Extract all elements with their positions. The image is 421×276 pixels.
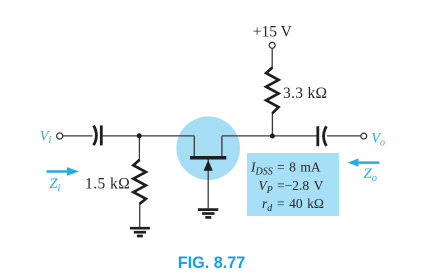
svg-text:Zi: Zi: [49, 176, 60, 194]
svg-text:+15 V: +15 V: [253, 24, 293, 41]
svg-text:3.3 kΩ: 3.3 kΩ: [283, 85, 327, 102]
svg-text:Vo: Vo: [371, 131, 385, 149]
svg-text:Zo: Zo: [363, 166, 377, 184]
svg-text:Vi: Vi: [40, 128, 52, 146]
svg-text:FIG. 8.77: FIG. 8.77: [178, 254, 245, 272]
svg-text:1.5 kΩ: 1.5 kΩ: [85, 175, 130, 192]
